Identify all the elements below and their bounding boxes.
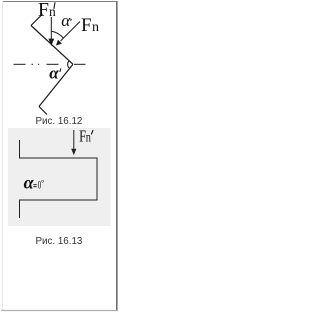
svg-text:Рис. 16.12: Рис. 16.12 bbox=[36, 116, 83, 127]
fig2 label Fn' prime mark bbox=[91, 130, 93, 134]
fig2 top surface line bbox=[19, 157, 98, 159]
fig1 force arrow Fn' shaft bbox=[50, 17, 52, 40]
border bottom bbox=[1, 310, 117, 312]
fig1 centerline dash 3 after vertex bbox=[74, 63, 86, 65]
svg-text:Fn: Fn bbox=[79, 128, 91, 146]
fig1 angle arc alpha' at contact point bbox=[52, 31, 64, 38]
fig1 lower edge from C bbox=[39, 107, 47, 115]
fig2 bottom surface line bbox=[19, 199, 98, 201]
fig1 thread flank edge A-B bbox=[31, 26, 73, 65]
fig2 gray background panel bbox=[8, 128, 111, 226]
fig1 upper edge from A bbox=[31, 14, 43, 26]
fig2 force arrow Fn' head bbox=[71, 149, 76, 156]
fig1 force arrow Fn' head bbox=[48, 39, 54, 46]
fig1 centerline dash 2 bbox=[47, 63, 59, 65]
fig2 left upper tick bbox=[19, 140, 21, 159]
fig2 force arrow Fn' shaft bbox=[73, 130, 75, 150]
fig2 label equals sign bbox=[33, 184, 36, 186]
fig1 force arrow Fn shaft bbox=[61, 22, 81, 42]
page background bbox=[0, 0, 123, 324]
border left bbox=[2, 1, 4, 311]
fig1 alpha2 prime mark bbox=[59, 69, 62, 73]
svg-text:Fn: Fn bbox=[38, 0, 56, 21]
svg-text:α: α bbox=[24, 173, 35, 193]
fig2 right vertical bbox=[96, 158, 98, 201]
fig1 label Fn' prime mark bbox=[54, 2, 55, 9]
svg-text:°: ° bbox=[41, 178, 44, 188]
border right bbox=[116, 1, 118, 311]
fig1 lower flank B-C bbox=[39, 64, 73, 106]
svg-text:α: α bbox=[49, 63, 59, 82]
fig1 centerline dash 1 bbox=[14, 63, 26, 65]
svg-text:α: α bbox=[61, 11, 71, 30]
fig1 centerline dot 1 bbox=[32, 63, 34, 65]
fig1 force arrow Fn head bbox=[56, 40, 62, 46]
fig2 left lower tick bbox=[19, 200, 21, 218]
fig1 alpha1 prime mark bbox=[70, 19, 73, 21]
border top bbox=[2, 1, 117, 3]
svg-text:Рис. 16.13: Рис. 16.13 bbox=[36, 236, 83, 247]
fig1 angle arc at vertex B bbox=[68, 61, 70, 69]
fig1 centerline dot 2 bbox=[38, 63, 39, 65]
